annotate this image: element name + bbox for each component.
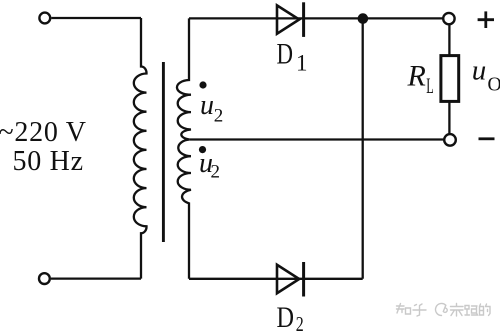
wire primary top xyxy=(51,17,141,19)
terminal input top xyxy=(39,13,50,24)
resistor RL body xyxy=(441,56,459,102)
terminal input bottom xyxy=(39,273,50,284)
svg-text:D: D xyxy=(277,301,295,331)
wire top rail xyxy=(189,17,443,19)
svg-text:50 Hz: 50 Hz xyxy=(13,146,84,177)
wire cathode bus (junction to D2) xyxy=(362,19,364,279)
diode D1 xyxy=(277,2,304,37)
svg-text:O: O xyxy=(488,75,500,96)
plus sign xyxy=(478,11,494,28)
svg-text:R: R xyxy=(407,59,426,92)
svg-text:D: D xyxy=(277,38,294,71)
minus sign xyxy=(479,137,495,140)
svg-text:L: L xyxy=(426,73,434,98)
svg-text:u: u xyxy=(200,90,214,121)
secondary winding lower u2 xyxy=(178,140,191,279)
junction node xyxy=(358,13,369,24)
svg-text:~220 V: ~220 V xyxy=(0,117,86,148)
polarity dot upper xyxy=(199,81,206,88)
wire RL to - terminal xyxy=(448,101,450,134)
svg-text:2: 2 xyxy=(211,162,221,183)
svg-text:1: 1 xyxy=(296,50,308,75)
wire primary bottom xyxy=(51,277,141,279)
wire center tap xyxy=(190,138,445,140)
polarity dot lower xyxy=(199,146,206,153)
terminal output - xyxy=(444,134,456,146)
transformer core xyxy=(162,62,165,242)
svg-text:u: u xyxy=(472,55,487,87)
svg-text:2: 2 xyxy=(214,106,224,127)
secondary winding upper u2 xyxy=(177,18,191,139)
terminal output + xyxy=(443,13,454,24)
primary winding L1 xyxy=(134,18,147,279)
watermark zhihu xyxy=(397,304,491,317)
wire bottom rail xyxy=(189,278,363,280)
svg-text:2: 2 xyxy=(296,312,304,331)
diode D2 xyxy=(277,262,304,297)
wire + terminal to RL xyxy=(448,24,450,55)
